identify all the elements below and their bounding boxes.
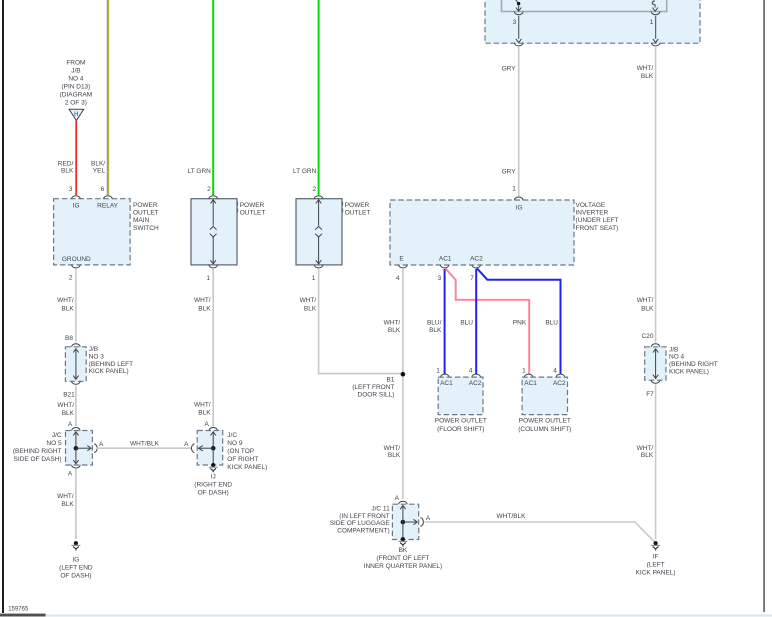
wire pin3 to dashed edge <box>518 16 520 39</box>
J/C NO 9 arrow up <box>212 432 214 448</box>
J/C NO 5 arrow up <box>75 432 77 448</box>
svg-text:POWER: POWER <box>345 202 370 209</box>
svg-text:2: 2 <box>69 275 73 282</box>
svg-text:J/C 11: J/C 11 <box>371 505 390 512</box>
relay block inner box <box>502 0 667 12</box>
svg-text:POWER OUTLET: POWER OUTLET <box>435 417 487 424</box>
J/C 11 arrow up <box>402 506 404 523</box>
junction node B1 <box>401 372 406 377</box>
svg-text:WHT/: WHT/ <box>384 320 401 327</box>
svg-text:A: A <box>426 515 431 522</box>
svg-text:1: 1 <box>312 275 316 282</box>
svg-text:A: A <box>68 421 73 428</box>
svg-text:AC2: AC2 <box>470 256 483 263</box>
pin IG connector arc <box>514 197 523 200</box>
ground BK <box>401 537 405 541</box>
svg-text:B21: B21 <box>63 391 75 398</box>
power outlet 1 box <box>191 199 237 265</box>
J/C NO 9 junction dot <box>211 446 216 451</box>
wire WHT/BLK J/C 11 to IF ground <box>425 522 656 542</box>
power outlet (column shift) box <box>522 377 567 415</box>
wire BLU/BLK inverter AC1 to floor outlet AC1 <box>444 269 446 374</box>
svg-text:A: A <box>68 470 73 477</box>
svg-text:DOOR SILL): DOOR SILL) <box>358 391 395 398</box>
svg-text:OF DASH): OF DASH) <box>60 572 91 579</box>
wire WHT/BLK B21 to J/C NO5 <box>75 385 77 426</box>
connector arc B8 <box>72 344 81 347</box>
J/C NO 5 arrow right <box>76 447 91 449</box>
triangle connector H <box>69 109 84 120</box>
connector arc B21 <box>72 381 81 384</box>
svg-text:4: 4 <box>396 275 400 282</box>
svg-text:J/B: J/B <box>669 346 678 353</box>
svg-text:NO 4: NO 4 <box>68 75 84 82</box>
pin 1 of relay block <box>651 12 660 15</box>
svg-text:2: 2 <box>207 186 211 193</box>
svg-text:1: 1 <box>522 367 526 374</box>
pin 1 connector arc power outlet 2 <box>314 265 323 268</box>
connector arc bottom J/C NO 5 <box>72 465 81 468</box>
svg-text:BLK: BLK <box>641 73 654 80</box>
svg-text:KICK PANEL): KICK PANEL) <box>89 368 129 375</box>
svg-text:A: A <box>184 441 189 448</box>
wire LT GRN 1 <box>212 0 214 195</box>
svg-text:B8: B8 <box>65 335 73 342</box>
svg-text:WHT/BLK: WHT/BLK <box>130 441 160 448</box>
svg-text:2: 2 <box>312 186 316 193</box>
svg-text:(BEHIND LEFT: (BEHIND LEFT <box>89 361 133 368</box>
svg-text:H: H <box>74 112 78 118</box>
svg-text:BLK/: BLK/ <box>91 160 105 167</box>
bottom edge dark segment <box>0 614 46 617</box>
svg-text:SIDE OF LUGGAGE: SIDE OF LUGGAGE <box>330 520 391 527</box>
junction connector J/C 11 box <box>392 504 418 539</box>
svg-text:LT GRN: LT GRN <box>188 168 212 175</box>
svg-text:(BEHIND RIGHT: (BEHIND RIGHT <box>13 448 62 455</box>
svg-text:WHT/: WHT/ <box>57 402 74 409</box>
svg-text:KICK PANEL): KICK PANEL) <box>636 570 676 577</box>
ground IJ <box>211 463 215 467</box>
svg-text:WHT/: WHT/ <box>194 297 211 304</box>
connector arc C20 <box>651 344 660 347</box>
svg-text:159765: 159765 <box>8 607 29 613</box>
svg-text:FROM: FROM <box>66 59 85 66</box>
svg-text:BLK: BLK <box>198 409 211 416</box>
svg-text:WHT/: WHT/ <box>57 493 74 500</box>
svg-text:4: 4 <box>553 367 557 374</box>
svg-text:BLK: BLK <box>61 305 74 312</box>
svg-text:GRY: GRY <box>502 66 517 73</box>
connector arc right J/C NO 5 <box>94 444 97 453</box>
pin E connector arc <box>399 265 408 268</box>
svg-text:POWER OUTLET: POWER OUTLET <box>519 417 571 424</box>
svg-text:WHT/: WHT/ <box>637 297 654 304</box>
svg-text:J/B: J/B <box>71 67 80 74</box>
svg-text:BLU: BLU <box>460 320 473 327</box>
svg-text:(IN LEFT FRONT: (IN LEFT FRONT <box>339 513 389 520</box>
svg-text:A: A <box>205 421 210 428</box>
svg-text:COMPARTMENT): COMPARTMENT) <box>337 528 389 535</box>
svg-text:OF RIGHT: OF RIGHT <box>227 456 258 463</box>
junction dot inside relay block <box>517 2 520 5</box>
svg-text:OF DASH): OF DASH) <box>198 490 229 497</box>
pin 3 of relay block <box>514 12 523 15</box>
svg-text:RED/: RED/ <box>58 160 74 167</box>
svg-text:(RIGHT END: (RIGHT END <box>194 482 232 489</box>
svg-text:J/B: J/B <box>89 346 98 353</box>
svg-text:BLK: BLK <box>61 168 74 175</box>
svg-text:LT GRN: LT GRN <box>293 168 317 175</box>
svg-text:3: 3 <box>69 186 73 193</box>
svg-text:(FLOOR SHIFT): (FLOOR SHIFT) <box>437 426 484 433</box>
svg-text:BLK: BLK <box>304 305 317 312</box>
J/C 11 junction dot <box>401 520 406 525</box>
svg-text:E: E <box>399 256 404 263</box>
svg-text:WHT/BLK: WHT/BLK <box>497 513 527 520</box>
power outlet 2 box <box>296 199 342 265</box>
pin AC2 connector arc column outlet <box>556 374 565 377</box>
svg-text:3: 3 <box>513 19 517 26</box>
svg-text:J/C: J/C <box>227 432 237 439</box>
svg-text:(LEFT: (LEFT <box>647 562 665 569</box>
J/C 11 arrow right <box>403 521 417 523</box>
svg-text:BLU/: BLU/ <box>427 320 442 327</box>
wire BLU inverter AC2 to column outlet AC2 <box>477 268 561 374</box>
label POWER OUTLET 2 <box>342 202 344 216</box>
wire WHT/BLK from main switch pin 2 <box>75 269 77 343</box>
junction connector J/C NO 9 box <box>197 431 223 466</box>
svg-text:IG: IG <box>72 556 79 563</box>
pin 1 connector arc power outlet 1 <box>209 265 218 268</box>
wire relay block internal to pin 3 <box>518 4 520 11</box>
svg-text:IG: IG <box>516 205 523 212</box>
wire WHT/BLK F7 to IF ground <box>655 384 657 539</box>
connector arc top J/C NO 9 <box>209 428 218 431</box>
svg-text:KICK PANEL): KICK PANEL) <box>227 464 267 471</box>
connector arc top J/C 11 <box>399 501 408 504</box>
pin AC1 connector arc floor outlet <box>441 374 450 377</box>
svg-text:WHT/: WHT/ <box>637 445 654 452</box>
wire WHT/BLK outlet2 down and right to node B1 <box>319 269 402 374</box>
wire RED/BLK <box>75 121 77 195</box>
svg-text:1: 1 <box>206 275 210 282</box>
svg-text:OUTLET: OUTLET <box>345 210 371 217</box>
wire BLK/YEL <box>106 0 108 195</box>
svg-text:WHT/: WHT/ <box>384 445 401 452</box>
svg-text:BLK: BLK <box>62 410 75 417</box>
svg-text:POWER: POWER <box>133 202 158 209</box>
svg-text:INNER QUARTER PANEL): INNER QUARTER PANEL) <box>364 563 443 570</box>
svg-text:J/C: J/C <box>52 432 62 439</box>
connector arc left J/C NO 9 <box>192 444 195 453</box>
svg-text:NO 4: NO 4 <box>669 354 685 361</box>
power outlet 1 element <box>212 200 214 226</box>
border frame left <box>2 0 4 613</box>
connector arc F7 <box>651 380 660 383</box>
J/C NO 5 junction dot <box>74 446 79 451</box>
svg-text:BK: BK <box>399 547 408 554</box>
svg-text:FRONT SEAT): FRONT SEAT) <box>576 225 619 232</box>
wire WHT/BLK from inverter E <box>402 269 404 499</box>
wire WHT/BLK outlet1 to J/C NO9 <box>212 269 214 426</box>
svg-text:BLK: BLK <box>198 305 211 312</box>
wire pin1 to dashed edge <box>655 16 657 39</box>
bottom edge light strip <box>46 614 772 616</box>
svg-text:AC1: AC1 <box>440 380 453 387</box>
junction connector J/C NO 5 box <box>66 431 93 466</box>
pin 3 connector arc main switch <box>72 196 81 199</box>
svg-text:AC2: AC2 <box>553 380 566 387</box>
wire GRY vertical <box>518 47 520 196</box>
svg-text:1: 1 <box>512 186 516 193</box>
wire BLU inverter AC2 to floor outlet AC2 <box>475 269 477 374</box>
svg-text:SIDE OF DASH): SIDE OF DASH) <box>14 456 62 463</box>
ground IG <box>74 541 78 545</box>
svg-text:IJ: IJ <box>211 474 216 481</box>
J/C NO 9 wire down to ground <box>212 448 214 463</box>
pin 6 connector arc main switch <box>104 196 113 199</box>
label POWER OUTLET 1 <box>237 202 239 216</box>
svg-text:SWITCH: SWITCH <box>133 225 159 232</box>
svg-text:BLK: BLK <box>641 305 654 312</box>
svg-text:(COLUMN SHIFT): (COLUMN SHIFT) <box>518 426 571 433</box>
svg-text:PNK: PNK <box>513 320 527 327</box>
power outlet 2 element <box>318 200 320 226</box>
svg-text:BLU: BLU <box>545 320 558 327</box>
pin 2 connector arc main switch <box>72 265 81 268</box>
svg-text:(DIAGRAM: (DIAGRAM <box>60 91 93 98</box>
svg-text:(ON TOP: (ON TOP <box>227 448 254 455</box>
svg-text:C20: C20 <box>642 333 654 340</box>
svg-text:BLK: BLK <box>61 501 74 508</box>
svg-text:BLK: BLK <box>429 327 442 334</box>
pin AC2 connector arc floor outlet <box>472 374 481 377</box>
svg-text:2 OF 3): 2 OF 3) <box>65 99 87 106</box>
svg-text:A: A <box>395 495 400 502</box>
svg-text:1: 1 <box>436 367 440 374</box>
svg-text:4: 4 <box>469 367 473 374</box>
svg-text:AC1: AC1 <box>439 256 452 263</box>
pin AC1 connector arc <box>440 265 449 268</box>
pin AC1 connector arc column outlet <box>524 374 533 377</box>
svg-text:B1: B1 <box>386 377 394 384</box>
svg-text:(FRONT OF LEFT: (FRONT OF LEFT <box>376 555 429 562</box>
power outlet (floor shift) box <box>438 377 483 415</box>
connector arc right J/C 11 <box>420 518 423 527</box>
svg-text:BLK: BLK <box>641 452 654 459</box>
ground IF <box>654 541 658 545</box>
wire WHT/BLK J/C NO5 to IG ground <box>75 469 77 539</box>
pin 2 connector arc power outlet 1 <box>209 196 218 199</box>
junction block J/B NO 3 box <box>65 347 86 382</box>
svg-text:YEL: YEL <box>93 168 106 175</box>
pin AC2 connector arc <box>472 265 481 268</box>
coil squiggle at relay block pin 1 <box>652 0 655 8</box>
svg-text:F7: F7 <box>646 391 654 398</box>
J/C NO 5 arrow down <box>75 448 77 464</box>
svg-text:(UNDER LEFT: (UNDER LEFT <box>576 217 619 224</box>
svg-text:7: 7 <box>470 275 474 282</box>
J/B NO 4 pass-through arrow <box>655 349 657 379</box>
svg-text:WHT/: WHT/ <box>194 401 211 408</box>
J/C NO 9 arrow left <box>199 447 214 449</box>
wire LT GRN 2 <box>318 0 320 195</box>
svg-text:AC2: AC2 <box>469 380 482 387</box>
svg-text:OUTLET: OUTLET <box>133 210 159 217</box>
junction block J/B NO 4 box <box>645 347 666 380</box>
svg-text:BLK: BLK <box>388 452 401 459</box>
svg-text:WHT/: WHT/ <box>300 297 317 304</box>
svg-text:(LEFT END: (LEFT END <box>59 564 93 571</box>
svg-text:NO 3: NO 3 <box>89 353 105 360</box>
svg-text:BLK: BLK <box>388 327 401 334</box>
svg-text:(BEHIND RIGHT: (BEHIND RIGHT <box>669 361 718 368</box>
J/B NO 3 pass-through arrow <box>75 349 77 380</box>
svg-text:WHT/: WHT/ <box>57 297 74 304</box>
svg-text:6: 6 <box>101 186 105 193</box>
svg-text:A: A <box>99 441 104 448</box>
svg-text:NO 5: NO 5 <box>46 440 62 447</box>
connector arc top J/C NO 5 <box>72 428 81 431</box>
svg-text:1: 1 <box>650 19 654 26</box>
svg-text:KICK PANEL): KICK PANEL) <box>669 369 709 376</box>
svg-text:3: 3 <box>438 275 442 282</box>
svg-text:(PIN D13): (PIN D13) <box>61 83 90 90</box>
wire PNK inverter AC1 to column outlet AC1 <box>445 268 529 374</box>
wire WHT/BLK right vertical upper <box>655 47 657 343</box>
relay switch blade inside relay block <box>515 0 518 3</box>
wire WHT/BLK J/C NO5 to J/C NO9 <box>96 447 191 449</box>
relay block (top, cut off) outer dashed box <box>485 0 700 43</box>
svg-text:RELAY: RELAY <box>97 202 118 209</box>
svg-text:VOLTAGE: VOLTAGE <box>576 202 606 209</box>
svg-text:GROUND: GROUND <box>62 256 91 263</box>
J/C 11 wire down to ground <box>402 522 404 538</box>
svg-text:MAIN: MAIN <box>133 217 150 224</box>
svg-text:(LEFT FRONT: (LEFT FRONT <box>352 384 394 391</box>
svg-text:WHT/: WHT/ <box>637 65 654 72</box>
svg-text:NO 9: NO 9 <box>227 440 243 447</box>
svg-text:IG: IG <box>73 202 80 209</box>
svg-text:IF: IF <box>653 554 659 561</box>
svg-text:OUTLET: OUTLET <box>240 210 266 217</box>
power outlet main switch box <box>54 199 131 265</box>
voltage inverter box <box>390 200 574 265</box>
svg-text:POWER: POWER <box>240 202 265 209</box>
svg-text:GRY: GRY <box>502 169 517 176</box>
svg-text:INVERTER: INVERTER <box>576 210 609 217</box>
border frame right <box>763 0 765 612</box>
pin 2 connector arc power outlet 2 <box>314 196 323 199</box>
svg-text:AC1: AC1 <box>524 380 537 387</box>
